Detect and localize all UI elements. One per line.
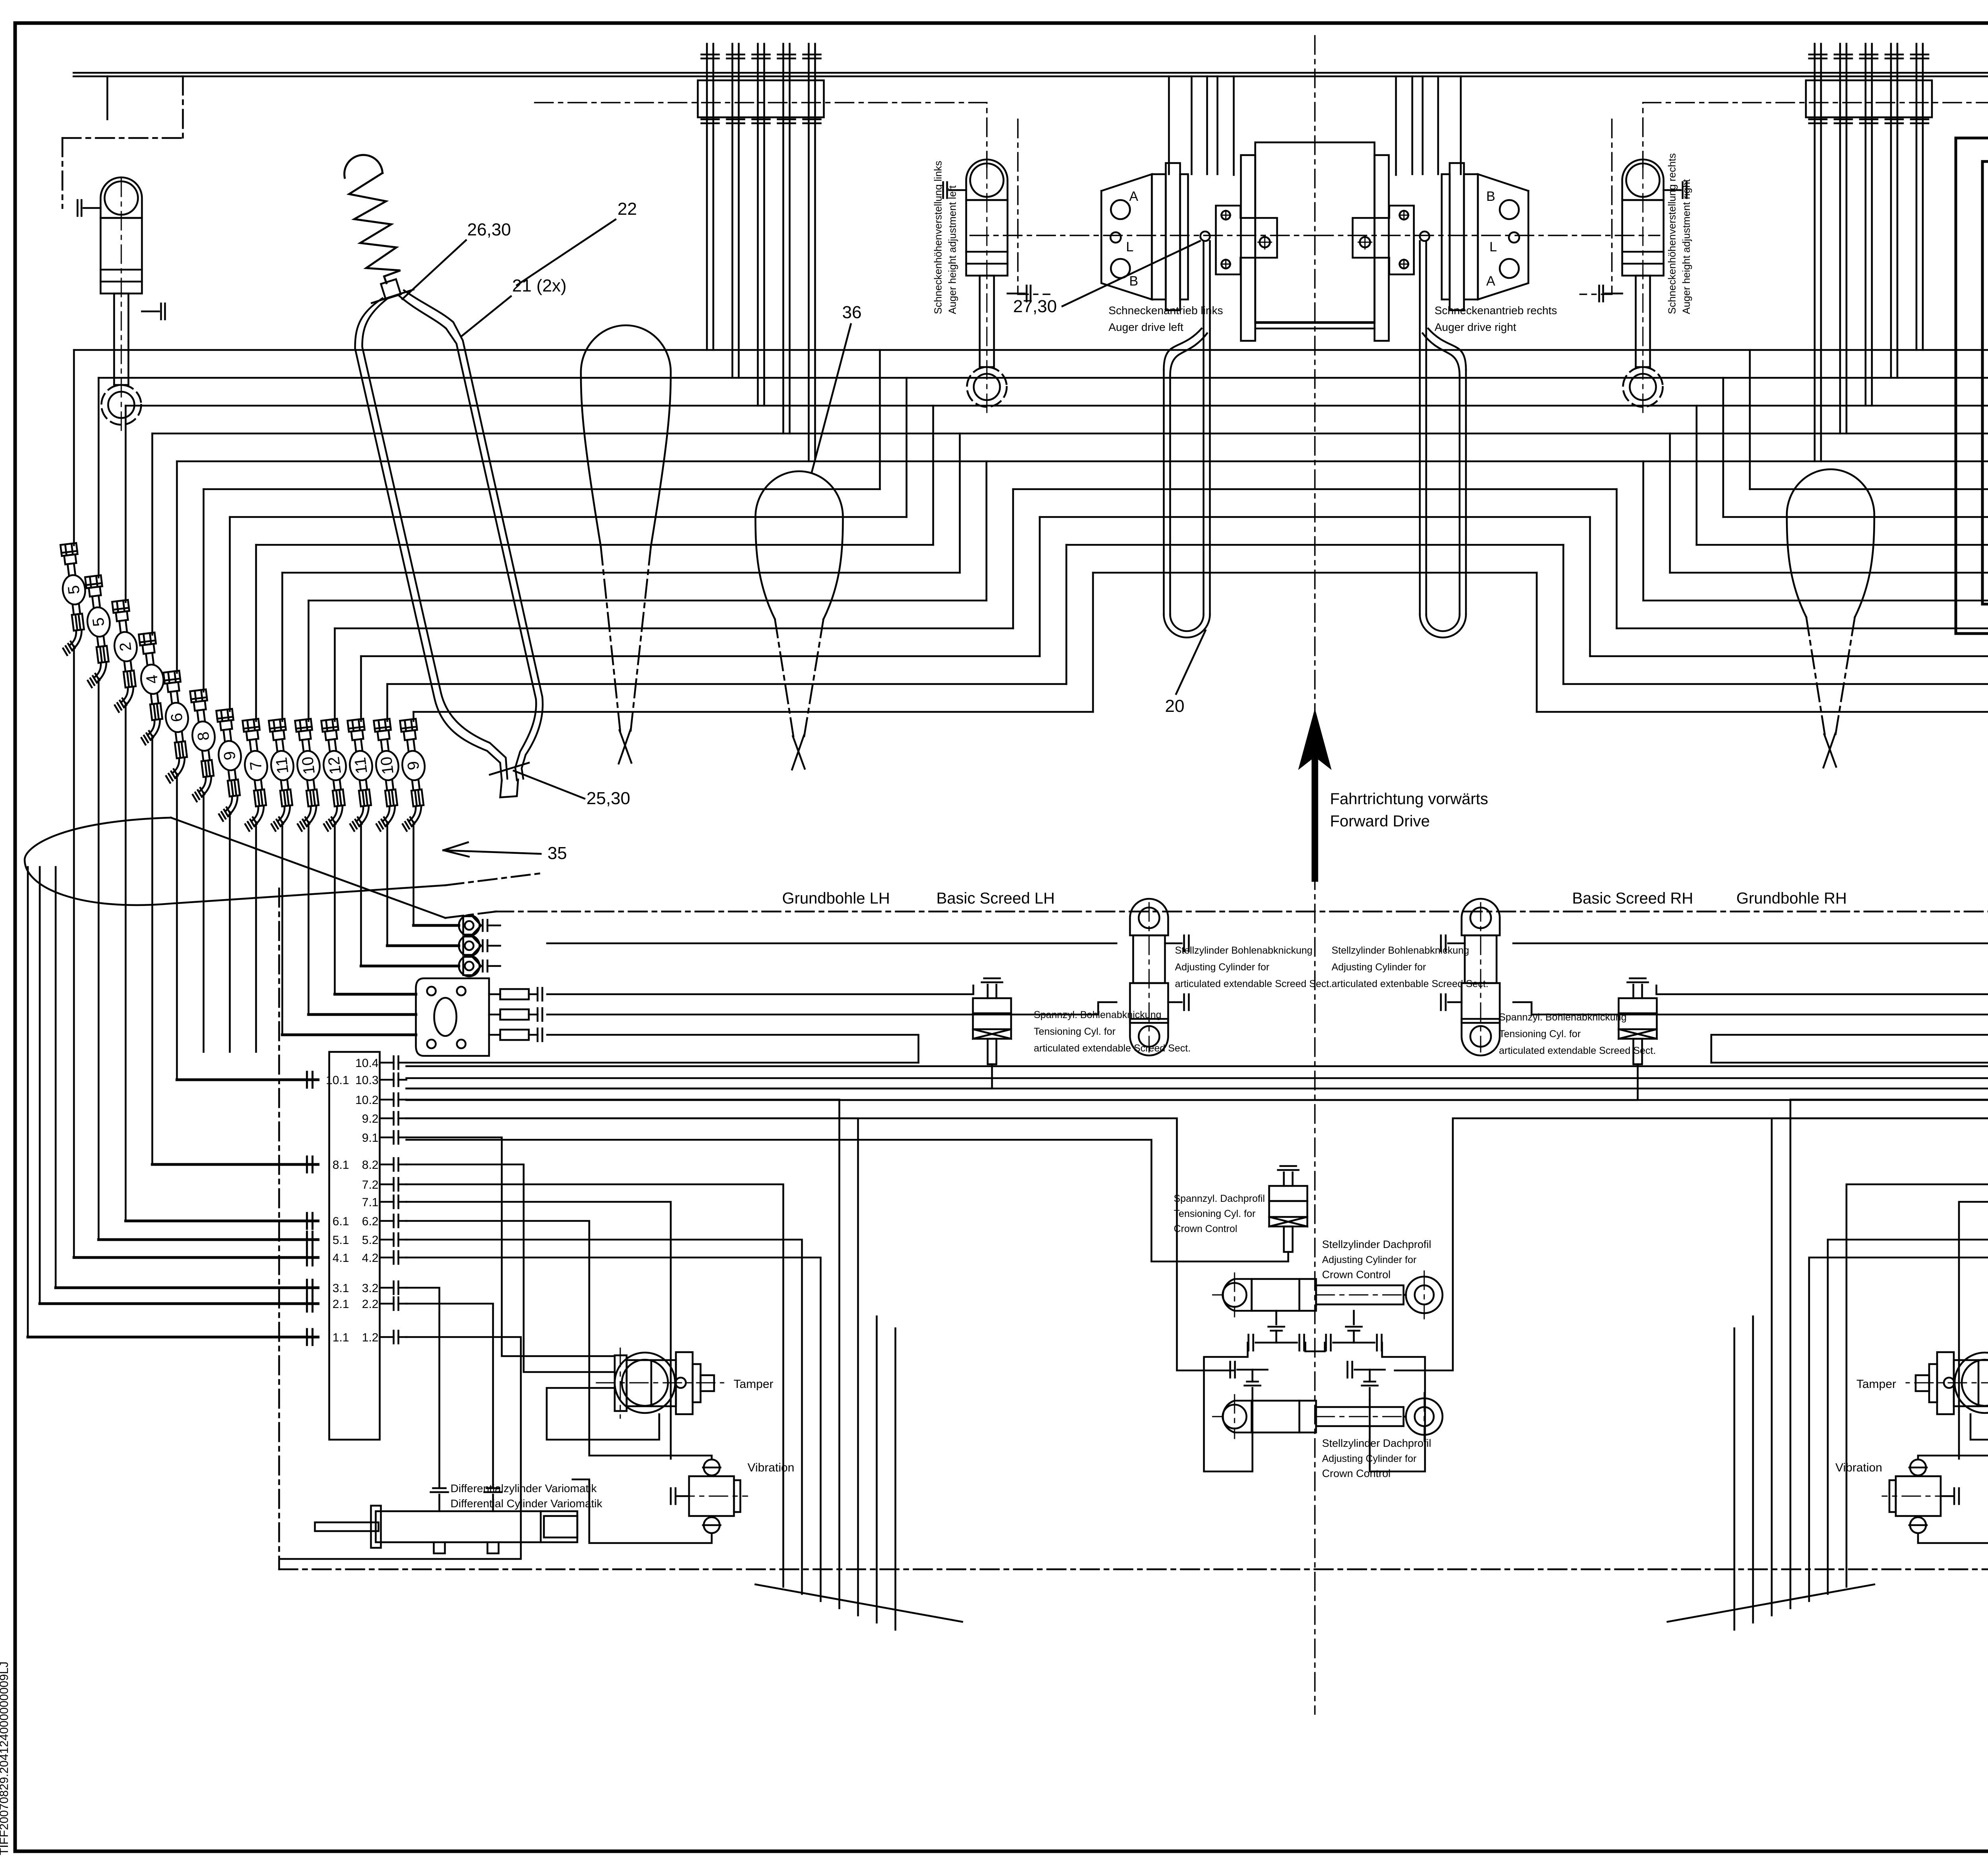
tamper hydraulic motor right — [1955, 1353, 1988, 1413]
svg-text:2.1: 2.1 — [332, 1298, 349, 1311]
hose U-loop 20 right — [1425, 241, 1427, 614]
wire level 6 left segment — [204, 488, 880, 490]
svg-text:Auger drive right: Auger drive right — [1435, 321, 1516, 333]
connector columns — [73, 350, 75, 545]
bulkhead hex fittings left — [459, 915, 481, 936]
svg-text:Stellzylinder Dachprofil: Stellzylinder Dachprofil — [1322, 1437, 1431, 1449]
svg-text:5.2: 5.2 — [362, 1234, 379, 1247]
Stellzylinder Bohlenabknickung left — [1139, 908, 1159, 928]
svg-text:A: A — [1486, 274, 1495, 289]
svg-text:Tensioning Cyl. for: Tensioning Cyl. for — [1174, 1208, 1256, 1219]
svg-text:Tensioning Cyl. for: Tensioning Cyl. for — [1499, 1028, 1581, 1040]
auger hose drop 4 left — [782, 44, 784, 433]
svg-text:Adjusting Cylinder for: Adjusting Cylinder for — [1332, 962, 1426, 973]
wire level 11 right segment — [1617, 628, 1988, 630]
svg-text:Forward Drive: Forward Drive — [1330, 812, 1430, 830]
port B circle — [1500, 259, 1519, 278]
svg-text:Basic Screed LH: Basic Screed LH — [936, 890, 1055, 907]
svg-text:10.4: 10.4 — [355, 1057, 379, 1070]
valve wire 1 — [1956, 138, 1988, 634]
svg-text:articulated extendable Screed: articulated extendable Screed Sect. — [1499, 1045, 1656, 1056]
forward drive arrow — [1300, 712, 1330, 881]
wire level 4 full span — [152, 433, 1988, 435]
Spannzyl tensioning cylinder — [1269, 1186, 1307, 1201]
svg-text:Fahrtrichtung vorwärts: Fahrtrichtung vorwärts — [1330, 790, 1488, 808]
wire level 10 left segment — [309, 600, 986, 602]
svg-text:Schneckenhöhenverstellung rech: Schneckenhöhenverstellung rechts — [1666, 153, 1678, 314]
svg-text:20: 20 — [1165, 696, 1184, 716]
auger drive left flange stack — [1152, 174, 1166, 299]
lower web left: tamper loop wire — [547, 1388, 659, 1440]
hose coupling fitting tag 12 — [311, 718, 353, 831]
svg-text:Tamper: Tamper — [1856, 1378, 1896, 1391]
port A circle — [1111, 200, 1130, 219]
cut diagonal left — [755, 1584, 962, 1622]
auger hose drop 3 left — [757, 44, 759, 406]
hydraulic cylinder (height adjustment) — [943, 159, 1031, 415]
svg-text:B: B — [1129, 274, 1138, 289]
hose coupling fitting tag 6 — [153, 670, 196, 783]
hose coupling fitting tag 11 — [259, 718, 301, 831]
auger drive right rail drop lines — [1460, 76, 1462, 174]
centre line dash-dot — [1314, 36, 1316, 1714]
hose U-loop 20 left — [1203, 241, 1205, 614]
svg-text:Auger height adjustment left: Auger height adjustment left — [946, 185, 958, 314]
threaded studs left — [489, 993, 500, 995]
svg-text:10.2: 10.2 — [355, 1094, 379, 1107]
svg-text:8.2: 8.2 — [362, 1158, 379, 1172]
svg-text:8.1: 8.1 — [332, 1158, 349, 1172]
vibration hydraulic motor right — [1896, 1476, 1941, 1516]
lower web right: vibration feed wires — [1959, 1202, 1988, 1459]
auger hose drop 5 left — [808, 44, 810, 461]
auger hose coupling 27,30 right — [1420, 231, 1429, 241]
screed boundary dash-dot top — [495, 911, 1988, 913]
lower web left: differential cylinder wires — [406, 1288, 439, 1488]
wire level 5 full span — [177, 461, 1988, 463]
top mounting rail double line — [74, 72, 1988, 74]
svg-text:10: 10 — [299, 756, 318, 775]
port L circle — [1110, 232, 1121, 243]
svg-text:Auger drive left: Auger drive left — [1109, 321, 1184, 333]
Stellzylinder Dachprofil adjusting cylinder — [1223, 1283, 1246, 1307]
svg-text:27,30: 27,30 — [1013, 297, 1057, 316]
svg-text:Crown Control: Crown Control — [1174, 1223, 1237, 1234]
hose slack teardrop loop — [581, 325, 671, 546]
cut diagonal right — [1668, 1584, 1874, 1622]
svg-text:Differentialzylinder Variomati: Differentialzylinder Variomatik — [450, 1482, 597, 1495]
tamper hydraulic motor left — [615, 1353, 675, 1413]
svg-text:Schneckenantrieb links: Schneckenantrieb links — [1109, 304, 1223, 317]
svg-text:Stellzylinder Dachprofil: Stellzylinder Dachprofil — [1322, 1238, 1431, 1250]
hose coupling fitting tag 10 — [285, 718, 327, 831]
wire level 8 right segment — [1697, 544, 1988, 546]
lower web right: fan wires to screed end — [1846, 1184, 1988, 1587]
svg-text:Vibration: Vibration — [747, 1461, 794, 1474]
Spannzyl tensioning cylinder — [1619, 998, 1657, 1013]
svg-text:7.2: 7.2 — [362, 1178, 379, 1191]
Stellzylinder Dachprofil adjusting cylinder — [1223, 1405, 1246, 1429]
mounting plate with oval left — [416, 978, 489, 1056]
port A circle — [1500, 200, 1519, 219]
svg-text:10: 10 — [377, 756, 397, 775]
wire level 9 left segment — [282, 572, 960, 574]
svg-text:36: 36 — [842, 303, 862, 322]
lower web right: tamper loop wire — [1971, 1388, 1988, 1440]
svg-text:Stellzylinder Bohlenabknickung: Stellzylinder Bohlenabknickung — [1332, 945, 1469, 956]
svg-text:articulated extendable Screed: articulated extendable Screed Sect. — [1175, 978, 1332, 989]
svg-text:Schneckenhöhenverstellung link: Schneckenhöhenverstellung links — [932, 161, 944, 314]
svg-text:3.1: 3.1 — [332, 1282, 349, 1295]
wire level 13 right segment — [1563, 683, 1988, 685]
svg-text:Schneckenantrieb rechts: Schneckenantrieb rechts — [1435, 304, 1557, 317]
auger drive left mounting bracket — [1216, 206, 1277, 274]
hose coupling fitting tag 7 — [233, 718, 275, 831]
svg-text:L: L — [1126, 239, 1134, 255]
svg-text:Grundbohle LH: Grundbohle LH — [782, 890, 890, 907]
svg-text:A: A — [1129, 189, 1138, 204]
lower web left: vibration feed wires — [406, 1202, 671, 1459]
hose coupling fitting tag 8 — [180, 689, 222, 802]
wire level 13 left segment — [387, 683, 1066, 685]
hose coupling fitting tag 9 — [206, 708, 248, 821]
wires from Stellzylinder right into bracket — [1513, 943, 1988, 945]
hydraulic cylinder (height adjustment) — [78, 177, 165, 433]
vibration hydraulic motor left — [689, 1476, 734, 1516]
hose bus centre segments — [1013, 488, 1617, 490]
svg-text:Auger height adjustment right: Auger height adjustment right — [1680, 179, 1692, 314]
upper dash-dot link right — [1643, 103, 1988, 167]
svg-text:Spannzyl. Dachprofil: Spannzyl. Dachprofil — [1174, 1193, 1265, 1204]
svg-text:4.1: 4.1 — [332, 1252, 349, 1265]
auger hose drop 1 right — [1916, 44, 1918, 350]
hose slack teardrop loop — [1787, 469, 1874, 617]
svg-text:11: 11 — [273, 756, 292, 775]
svg-text:Adjusting Cylinder for: Adjusting Cylinder for — [1322, 1254, 1417, 1265]
svg-text:Tensioning Cyl. for: Tensioning Cyl. for — [1034, 1026, 1116, 1037]
wire level 9 right segment — [1670, 572, 1988, 574]
auger hose drop 3 right — [1865, 44, 1867, 406]
screed boundary dash-dot left — [278, 888, 280, 1569]
wires from Spannzyl to manifolds — [406, 1064, 992, 1088]
auger drive right flange stack — [1464, 174, 1478, 299]
hydraulic cylinder (height adjustment) — [1599, 159, 1687, 415]
auger drive right mounting bracket — [1353, 206, 1414, 274]
hose coupling fitting tag 2 — [102, 599, 144, 712]
Stellzylinder Bohlenabknickung right — [1470, 908, 1491, 928]
wires from Stellzylinder left into bracket — [547, 943, 1116, 945]
wire level 6 right segment — [1750, 488, 1988, 490]
center coupling housing — [1255, 142, 1375, 322]
svg-text:3.2: 3.2 — [362, 1282, 379, 1295]
svg-text:4.2: 4.2 — [362, 1252, 379, 1265]
svg-text:21 (2x): 21 (2x) — [512, 276, 567, 295]
differential cylinder Variomatik left — [376, 1511, 577, 1542]
auger axis dash-dot right — [1315, 235, 1660, 236]
wire level 2 full span — [99, 377, 1988, 379]
wire level 7 left segment — [230, 516, 907, 518]
hose 21 (2x) loop with fittings 26,30 and 25,30 — [381, 279, 401, 299]
auger hose drop 4 right — [1839, 44, 1841, 433]
lower web left: fan wires to screed end — [406, 1184, 783, 1587]
svg-text:6.2: 6.2 — [362, 1215, 379, 1228]
port B circle — [1111, 259, 1130, 278]
wire level 7 right segment — [1723, 516, 1988, 518]
svg-text:22: 22 — [617, 199, 637, 219]
manifold left-side feed lines (heavy) — [177, 1079, 318, 1081]
rail clamp frame left drops — [698, 80, 824, 117]
svg-text:26,30: 26,30 — [467, 220, 511, 239]
feed lines into hex fittings left — [414, 924, 459, 927]
svg-text:11: 11 — [351, 756, 371, 775]
svg-text:9.1: 9.1 — [362, 1131, 379, 1145]
auger hose drop 2 right — [1890, 44, 1892, 378]
svg-text:TIFF20070829.204124000000009LJ: TIFF20070829.204124000000009LJ — [0, 1662, 11, 1855]
lower web left: tamper feed wires — [406, 1137, 615, 1356]
svg-text:L: L — [1489, 239, 1497, 255]
svg-text:B: B — [1486, 189, 1495, 204]
wire level 12 right segment — [1590, 655, 1988, 657]
svg-text:1.1: 1.1 — [332, 1331, 349, 1344]
svg-text:10.3: 10.3 — [355, 1074, 379, 1087]
auger hose coupling 27,30 left — [1200, 231, 1210, 241]
svg-text:Grundbohle RH: Grundbohle RH — [1736, 890, 1847, 907]
hose coupling fitting tag 4 — [129, 632, 171, 745]
svg-text:Spannzyl. Bohlenabknickung: Spannzyl. Bohlenabknickung — [1499, 1012, 1627, 1023]
wire level 8 left segment — [256, 544, 933, 546]
auger hose drop 5 right — [1814, 44, 1816, 461]
svg-text:Adjusting Cylinder for: Adjusting Cylinder for — [1175, 962, 1270, 973]
crown control interconnect wires — [406, 1140, 1288, 1261]
auger hose drop 1 left — [706, 44, 708, 350]
hose coupling fitting tag 5 — [50, 542, 93, 655]
svg-text:Stellzylinder Bohlenabknickung: Stellzylinder Bohlenabknickung — [1175, 945, 1312, 956]
svg-text:Crown Control: Crown Control — [1322, 1269, 1391, 1281]
svg-text:12: 12 — [325, 756, 344, 775]
upper dash-dot link left — [535, 103, 987, 167]
auger drive left gearbox cone — [1101, 174, 1152, 299]
svg-text:10.1: 10.1 — [326, 1074, 349, 1087]
auger axis dash-dot left — [970, 235, 1315, 236]
screed boundary dash-dot bottom — [279, 1568, 1988, 1570]
svg-text:Crown Control: Crown Control — [1322, 1467, 1391, 1479]
valve wire 2 — [1982, 161, 1988, 604]
Spannzyl tensioning cylinder — [973, 998, 1011, 1013]
svg-text:6.1: 6.1 — [332, 1215, 349, 1228]
distribution manifold left — [329, 1052, 380, 1440]
lower cross wires between screed halves — [406, 1065, 1988, 1067]
svg-text:2.2: 2.2 — [362, 1298, 379, 1311]
wire level 1 full span — [74, 349, 1988, 351]
wire level 12 left segment — [361, 655, 1040, 657]
hose coupling fitting tag 9 — [390, 718, 432, 831]
wire level 10 right segment — [1643, 600, 1988, 602]
svg-text:7.1: 7.1 — [362, 1196, 379, 1209]
crown control tee fittings upper — [1276, 1311, 1277, 1324]
auger drive right gearbox cone — [1478, 174, 1528, 299]
rail clamp frame right drops — [1806, 80, 1932, 117]
hose loop 35 left — [25, 818, 445, 905]
svg-text:articulated extendable Screed: articulated extendable Screed Sect. — [1034, 1043, 1191, 1054]
svg-text:5.1: 5.1 — [332, 1234, 349, 1247]
hose slack teardrop loop — [755, 471, 843, 619]
svg-text:articulated extenbable Screed: articulated extenbable Screed Sect. — [1332, 978, 1489, 989]
tension spring 22 — [344, 155, 382, 178]
wire level 14 right segment — [1537, 711, 1988, 713]
svg-text:25,30: 25,30 — [586, 789, 630, 808]
svg-text:Basic Screed RH: Basic Screed RH — [1572, 890, 1693, 907]
wire level 14 left segment — [414, 711, 1093, 713]
port L circle — [1509, 232, 1519, 243]
svg-text:Tamper: Tamper — [734, 1378, 773, 1391]
auger hose drop 2 left — [732, 44, 734, 378]
hose coupling fitting tag 11 — [338, 718, 380, 831]
svg-text:Differential Cylinder Variomat: Differential Cylinder Variomatik — [450, 1497, 603, 1510]
svg-text:1.2: 1.2 — [362, 1331, 379, 1344]
hose bus step verticals — [879, 350, 881, 489]
svg-text:9.2: 9.2 — [362, 1112, 379, 1125]
svg-text:Vibration: Vibration — [1835, 1461, 1882, 1474]
svg-text:35: 35 — [547, 844, 567, 863]
crown control tee fittings lower — [1252, 1388, 1254, 1400]
hose coupling fitting tag 10 — [364, 718, 406, 831]
wire level 3 full span — [126, 405, 1988, 407]
dash-dot bracket left corner — [62, 137, 183, 139]
hose coupling fitting tag 5 — [75, 575, 117, 688]
wire level 11 left segment — [335, 628, 1013, 630]
auger drive left rail drop lines — [1168, 76, 1170, 174]
